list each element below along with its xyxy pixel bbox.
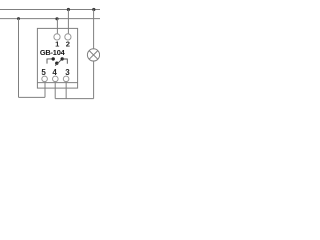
terminal 1 circle: [54, 34, 60, 40]
wire: supply bus N (second): [0, 18, 100, 20]
svg-text:2: 2: [66, 40, 70, 49]
node: junction dot on bus N at left drop: [17, 17, 20, 20]
terminal 5 circle: [42, 76, 48, 82]
wire: left drop from bus N down: [18, 19, 20, 98]
wire: lamp bottom lead: [93, 61, 95, 99]
switch S1 pole b: lever arm: [55, 59, 62, 66]
switch S1 pole a: fixed contact dot: [52, 57, 55, 60]
node: junction dot on bus L above terminal 2: [67, 8, 70, 11]
terminal 4 circle: [53, 76, 59, 82]
svg-text:5: 5: [41, 68, 46, 77]
box inner bottom edge above base strip: [37, 82, 77, 84]
wire: lamp top lead from bus L: [93, 10, 95, 50]
switch box GB-104 outline: [37, 28, 77, 88]
wire: drop from terminal 4 to bottom right run: [54, 81, 56, 99]
wire: drop from bus N to terminal 1: [56, 19, 58, 34]
lamp EL1: circle with cross: [87, 49, 99, 61]
node: junction dot on bus L above lamp: [92, 8, 95, 11]
switch S1 pole a: bracket contact: [47, 59, 52, 64]
switch S1 pole b: hook to terminal 3 side: [62, 59, 67, 64]
wire: bottom left horizontal run: [19, 96, 46, 98]
svg-text:3: 3: [65, 68, 70, 77]
switch S1 pole b: upper contact dot: [61, 57, 64, 60]
wire: drop from terminal 3 to bottom right run: [65, 81, 67, 99]
svg-text:4: 4: [52, 68, 57, 77]
switch S1 pole b: pivot contact dot: [55, 62, 58, 65]
svg-text:GB-104: GB-104: [40, 48, 66, 57]
terminal 2 circle: [65, 34, 71, 40]
terminal 3 circle: [63, 76, 69, 82]
wire: bottom right horizontal run to lamp: [55, 98, 93, 100]
wire: riser from bottom run up to terminal 5: [44, 81, 46, 97]
wire: drop from bus L to terminal 2 (crosses bus N): [67, 10, 69, 35]
node: junction dot on bus N above terminal 1: [55, 17, 58, 20]
wire: supply bus L (top): [0, 9, 100, 11]
